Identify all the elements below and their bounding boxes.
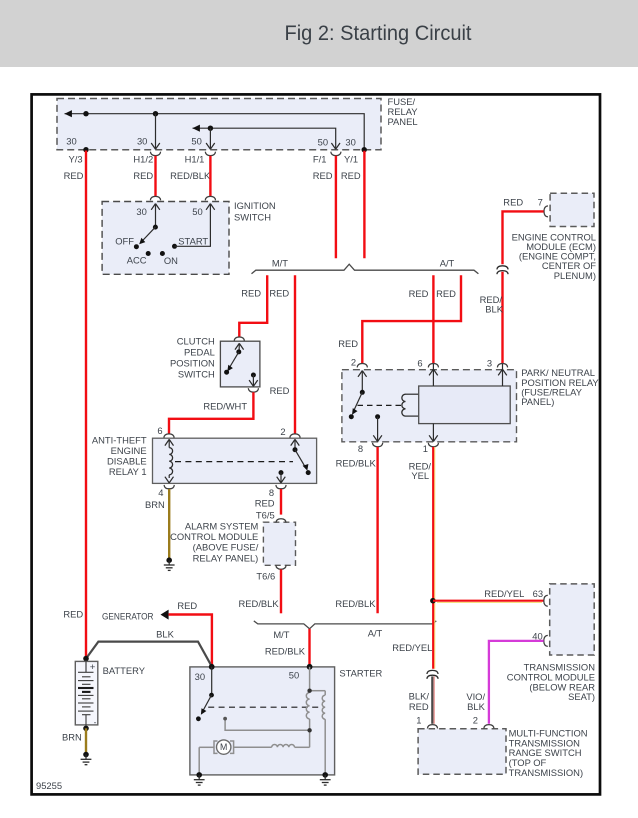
inline connector on RED/YEL [427, 670, 438, 678]
svg-text:30: 30 [137, 136, 147, 147]
wire RED/BLK down to relay pin 3 [501, 272, 503, 364]
relay switch [361, 371, 363, 393]
contact ON [160, 251, 165, 256]
svg-text:STARTER: STARTER [339, 668, 382, 679]
top connector [234, 337, 244, 341]
alarm system control module box [263, 522, 295, 565]
svg-text:RED: RED [341, 170, 361, 181]
svg-text:GENERATOR: GENERATOR [102, 610, 154, 621]
pin 1 [432, 424, 434, 442]
solenoid pull-in winding [306, 693, 309, 719]
svg-text:RED: RED [177, 600, 197, 611]
wire Y/1 red (down to upper brace) [363, 151, 365, 258]
svg-text:CLUTCH: CLUTCH [177, 335, 215, 346]
contact OFF [134, 244, 139, 249]
svg-text:F/1: F/1 [313, 154, 327, 165]
svg-text:7: 7 [538, 197, 543, 208]
svg-text:SWITCH: SWITCH [178, 368, 215, 379]
node Y/3 [83, 147, 88, 152]
svg-text:PLENUM): PLENUM) [554, 270, 596, 281]
outer frame [32, 94, 600, 794]
svg-text:RED/WHT: RED/WHT [203, 401, 247, 412]
node battery positive [83, 656, 89, 662]
node RED/YEL junction [430, 598, 436, 604]
ground [164, 557, 175, 570]
svg-text:START: START [178, 235, 208, 246]
svg-text:RED: RED [338, 338, 358, 349]
pin 4 [164, 485, 174, 489]
svg-text:BRN: BRN [145, 499, 165, 510]
wire RED/YEL from pin 1 [432, 447, 434, 669]
svg-text:DISABLE: DISABLE [107, 455, 147, 466]
svg-text:2: 2 [473, 715, 478, 726]
svg-text:50: 50 [289, 669, 299, 680]
linkage [358, 404, 403, 406]
svg-text:30: 30 [136, 206, 146, 217]
svg-text:RED: RED [63, 608, 83, 619]
node battery negative [83, 726, 89, 732]
terminal F/1 [331, 143, 340, 149]
wire Y/3 red (down to battery) [85, 151, 87, 659]
svg-text:PANEL): PANEL) [521, 396, 554, 407]
svg-text:40: 40 [532, 630, 542, 641]
svg-text:RED: RED [436, 288, 456, 299]
pin T6/6 connector [276, 565, 286, 569]
svg-text:RED: RED [409, 701, 429, 712]
relay coil [406, 393, 419, 395]
bus wire 2 [193, 128, 336, 149]
svg-text:RED: RED [409, 288, 429, 299]
ground battery [81, 752, 92, 765]
wire BRN to ground [85, 728, 87, 752]
svg-text:RED: RED [269, 288, 289, 299]
svg-text:Fig 2: Starting Circuit: Fig 2: Starting Circuit [285, 22, 472, 45]
wire H1/1 drop [209, 128, 211, 149]
svg-text:95255: 95255 [36, 780, 62, 791]
output contact to pin 8 [279, 470, 284, 475]
svg-text:RED/BLK: RED/BLK [336, 458, 377, 469]
switch [238, 343, 240, 352]
svg-text:T6/5: T6/5 [256, 510, 275, 521]
linkage [175, 461, 293, 463]
pin 2 [290, 434, 300, 438]
svg-text:ALARM SYSTEM: ALARM SYSTEM [185, 521, 259, 532]
pin 40 connector [544, 635, 548, 646]
svg-text:RED: RED [255, 497, 275, 508]
svg-text:50: 50 [318, 137, 328, 148]
wire BRN to ground [168, 489, 170, 558]
wire M/T left red [239, 275, 267, 336]
svg-text:Y/1: Y/1 [344, 154, 358, 165]
transmission control module box [550, 584, 595, 655]
solenoid hold-in winding [322, 695, 325, 719]
svg-text:Y/3: Y/3 [69, 154, 83, 165]
svg-text:BLK: BLK [467, 701, 485, 712]
svg-text:1: 1 [423, 443, 428, 454]
engine control module box [550, 193, 594, 226]
svg-text:63: 63 [533, 588, 543, 599]
wire BLK battery to starter [86, 642, 212, 667]
svg-text:OFF: OFF [115, 236, 134, 247]
svg-text:PANEL: PANEL [388, 116, 418, 127]
pin 2 [357, 364, 367, 368]
svg-text:8: 8 [358, 443, 363, 454]
svg-text:RED: RED [503, 197, 523, 208]
svg-text:PEDAL: PEDAL [184, 346, 215, 357]
solenoid windings [199, 667, 325, 775]
svg-text:CONTROL MODULE: CONTROL MODULE [170, 531, 258, 542]
svg-text:RED: RED [241, 288, 261, 299]
svg-text:2: 2 [280, 426, 285, 437]
svg-text:A/T: A/T [440, 258, 455, 269]
switch lever [155, 204, 157, 228]
svg-text:RED: RED [64, 170, 84, 181]
lower merge brace [254, 621, 436, 629]
wire RED/BLK from pin 8 to merge brace [376, 447, 378, 613]
starter switch [211, 667, 213, 695]
wire RED/YEL to pin 63 [433, 600, 544, 602]
svg-text:BLK/: BLK/ [409, 691, 430, 702]
pin 8 [375, 414, 380, 419]
pin 3 [502, 364, 504, 386]
wire H1/2 red [154, 156, 156, 196]
wire H1/1 red [209, 156, 211, 196]
wire RED/WHT to anti-theft relay pin 6 [169, 392, 253, 434]
pin 7 connector [544, 206, 548, 217]
svg-text:ANTI-THEFT: ANTI-THEFT [92, 434, 147, 445]
pin 6 [164, 434, 174, 438]
svg-text:RED/YEL: RED/YEL [484, 588, 524, 599]
svg-text:BATTERY: BATTERY [103, 665, 146, 676]
svg-text:M: M [220, 742, 227, 752]
relay coil [169, 448, 172, 475]
svg-text:RED: RED [270, 385, 290, 396]
wire A/T left red (to relay pin 6) [432, 275, 434, 363]
svg-text:RELAY PANEL): RELAY PANEL) [193, 553, 259, 564]
svg-text:BLK: BLK [156, 628, 174, 639]
svg-text:1: 1 [416, 714, 421, 725]
svg-text:2: 2 [351, 356, 356, 367]
wire H1/2 drop [155, 114, 157, 150]
node starter 50 [307, 664, 313, 670]
svg-text:SWITCH: SWITCH [234, 212, 271, 223]
wire VIO/BLK from pin 40 [489, 641, 544, 724]
ground starter left [194, 772, 205, 785]
svg-text:BLK: BLK [485, 304, 503, 315]
svg-text:+: + [90, 662, 96, 673]
wire A/T right red (to relay pin 2) [362, 275, 461, 363]
ground starter right [320, 772, 331, 785]
svg-text:6: 6 [157, 425, 162, 436]
svg-text:50: 50 [192, 206, 202, 217]
starter field winding inductor [272, 744, 295, 747]
svg-text:30: 30 [345, 137, 355, 148]
svg-text:RED: RED [133, 170, 153, 181]
node starter 30 [209, 664, 215, 670]
contact START [172, 244, 177, 249]
svg-text:SEAT): SEAT) [568, 691, 595, 702]
linkage [208, 706, 318, 708]
svg-text:RED: RED [313, 170, 333, 181]
inline connector [497, 266, 508, 274]
relay switch [294, 439, 296, 449]
svg-text:TRANSMISSION): TRANSMISSION) [509, 767, 583, 778]
starter motor [214, 741, 218, 753]
svg-text:RED/BLK: RED/BLK [170, 170, 211, 181]
title banner [0, 0, 638, 67]
svg-text:30: 30 [66, 136, 76, 147]
wire RED/BLK down to merge brace [280, 569, 282, 613]
svg-text:ACC: ACC [127, 254, 147, 265]
svg-text:IGNITION: IGNITION [234, 200, 276, 211]
svg-text:(ABOVE FUSE/: (ABOVE FUSE/ [193, 542, 259, 553]
svg-text:RED/BLK: RED/BLK [239, 598, 280, 609]
wire BLK/RED to range switch pin 1 [431, 676, 433, 723]
svg-text:8: 8 [269, 487, 274, 498]
svg-text:6: 6 [417, 358, 422, 369]
battery [75, 661, 98, 725]
wire F/1 red [335, 156, 337, 258]
bus wire 1 [65, 114, 365, 150]
svg-text:POSITION: POSITION [170, 357, 215, 368]
svg-text:RED/BLK: RED/BLK [335, 598, 376, 609]
park/neutral position relay box [342, 370, 517, 442]
svg-text:H1/2: H1/2 [133, 154, 153, 165]
svg-text:-: - [94, 717, 97, 727]
wire M/T right red [294, 275, 296, 434]
svg-text:BRN: BRN [62, 732, 82, 743]
svg-text:M/T: M/T [273, 629, 289, 640]
contact ACC [146, 251, 151, 256]
svg-text:ON: ON [164, 255, 178, 266]
generator arrow [161, 610, 169, 620]
terminal 50 [205, 196, 215, 200]
svg-text:30: 30 [195, 671, 205, 682]
relay body [419, 386, 511, 424]
pin T6/5 connector [276, 519, 286, 523]
anti-theft engine disable relay 1 box [153, 438, 317, 483]
ignition switch box [102, 202, 229, 275]
terminal 30 [150, 196, 160, 200]
fuse/relay panel box [57, 99, 381, 150]
clutch pedal position switch box [220, 341, 260, 387]
wire RED from generator [169, 615, 212, 666]
wire START to 50 [175, 204, 211, 247]
svg-text:50: 50 [191, 136, 201, 147]
output contact [251, 373, 256, 378]
starter box [190, 667, 335, 775]
svg-text:H1/1: H1/1 [185, 154, 205, 165]
svg-text:M/T: M/T [272, 258, 288, 269]
svg-text:4: 4 [158, 487, 163, 498]
multi-function transmission range switch box [418, 729, 506, 774]
upper split brace [252, 264, 479, 274]
wire RED from ECM pin 7 [503, 211, 544, 264]
svg-text:RELAY 1: RELAY 1 [109, 466, 147, 477]
wire RED/BLK merged down to starter 50 [308, 629, 310, 667]
svg-text:RED/YEL: RED/YEL [392, 642, 432, 653]
wire RED to alarm module [280, 489, 282, 515]
svg-text:A/T: A/T [368, 627, 383, 638]
pin 63 connector [544, 595, 548, 606]
svg-text:3: 3 [487, 358, 492, 369]
svg-text:T6/6: T6/6 [256, 571, 275, 582]
svg-text:YEL: YEL [411, 470, 429, 481]
pin 6 [432, 364, 434, 386]
svg-text:RED/BLK: RED/BLK [265, 646, 306, 657]
